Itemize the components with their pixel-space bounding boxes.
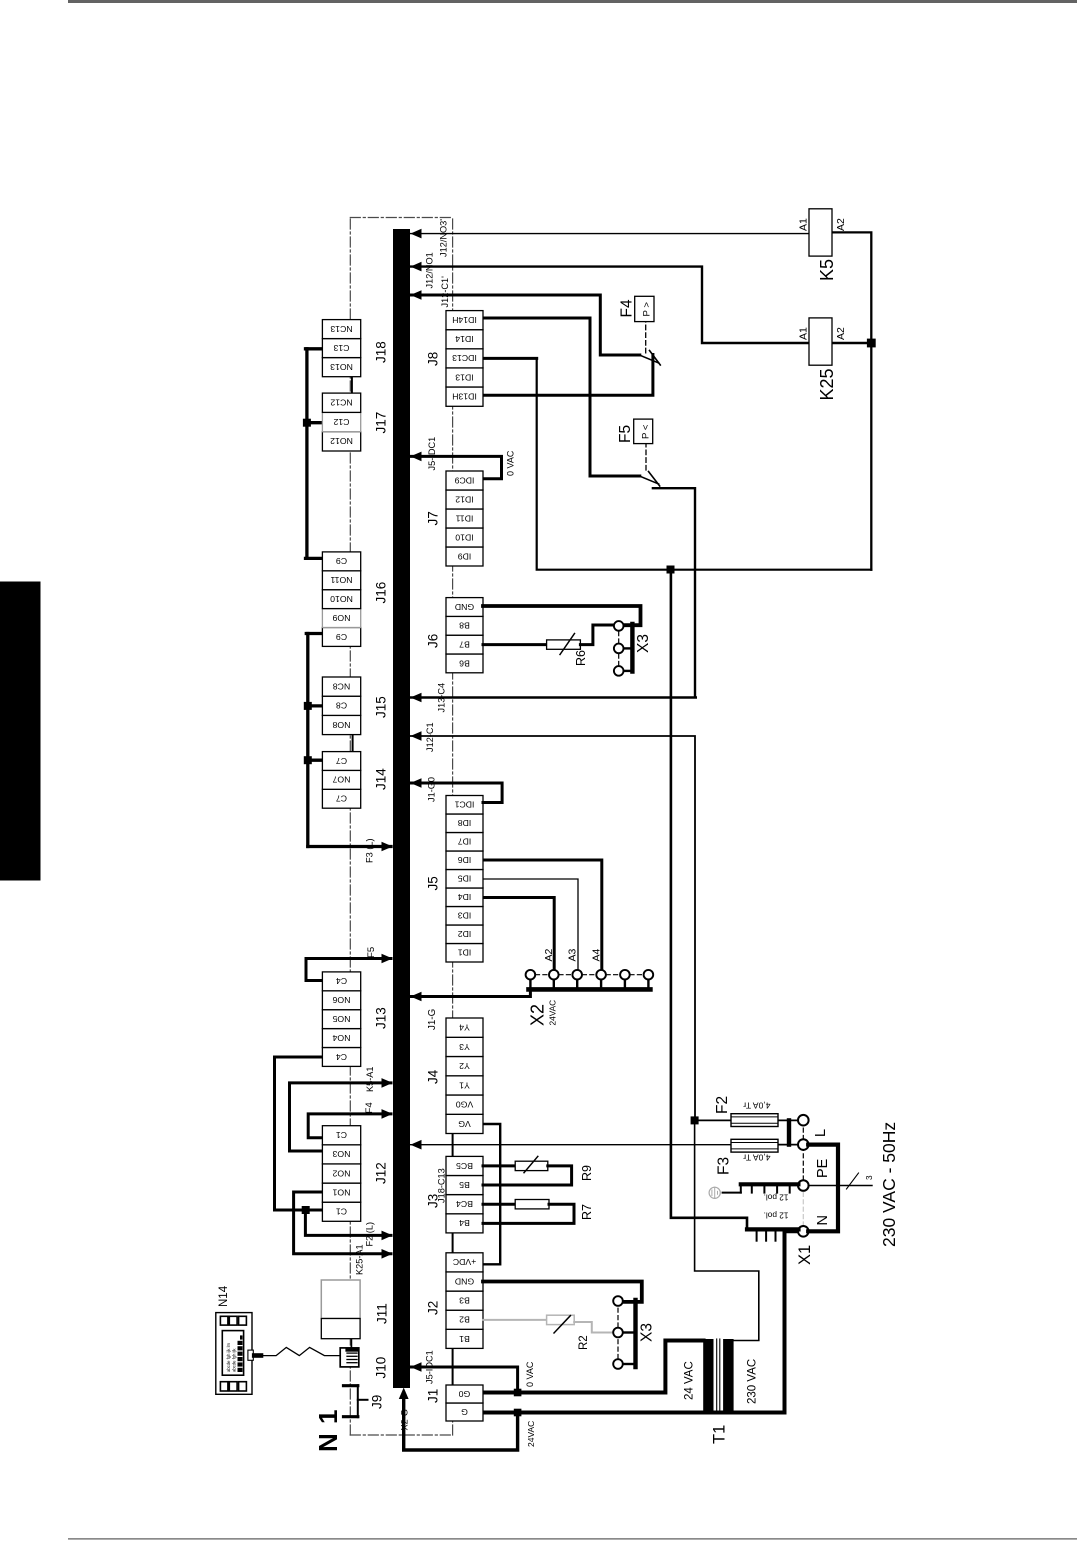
wire ID5 to X2-A3: [483, 879, 578, 970]
svg-text:J13: J13: [374, 1007, 389, 1029]
svg-text:J11: J11: [375, 1303, 390, 1324]
svg-text:X3: X3: [635, 634, 652, 653]
svg-text:F5: F5: [366, 947, 377, 958]
svg-text:A3: A3: [566, 948, 578, 961]
svg-text:VG: VG: [458, 1119, 471, 1129]
wire L terminal bridge: [787, 1120, 791, 1144]
svg-text:0 VAC: 0 VAC: [506, 450, 516, 476]
svg-text:N 1: N 1: [313, 1409, 343, 1452]
svg-text:J18: J18: [374, 341, 389, 363]
svg-text:J1-G: J1-G: [427, 1009, 438, 1030]
svg-text:F4: F4: [619, 299, 636, 317]
svg-text:J12-C1: J12-C1: [425, 722, 435, 752]
svg-text:F2: F2: [714, 1096, 731, 1114]
svg-text:J14: J14: [374, 768, 389, 790]
resistor R9: [483, 1156, 572, 1185]
wire C9/C8/C7 common bus to F3 (L): [306, 634, 391, 847]
wire J1-G0 to IDC1: [410, 783, 502, 803]
wire X1 mains bracket: [808, 1145, 838, 1232]
svg-text:NO2: NO2: [332, 1168, 350, 1178]
svg-text:N14: N14: [218, 1285, 230, 1307]
wire modem cable N14 to J10: [252, 1347, 340, 1357]
svg-text:GND: GND: [455, 602, 474, 612]
svg-text:230 VAC - 50Hz: 230 VAC - 50Hz: [879, 1122, 899, 1247]
arrows into bar top edge: [382, 842, 393, 1259]
fuse F2: [731, 1114, 778, 1127]
svg-text:G: G: [461, 1407, 468, 1417]
svg-text:NO6: NO6: [332, 995, 350, 1005]
terminal X1 circles L PE N: [798, 1115, 809, 1237]
svg-text:C4: C4: [336, 976, 347, 986]
wire VG to +VDC loop: [483, 1124, 500, 1264]
svg-text:J4: J4: [426, 1069, 441, 1084]
svg-text:C4: C4: [336, 1052, 347, 1062]
svg-text:Y1: Y1: [459, 1080, 470, 1090]
svg-text:A1: A1: [798, 218, 810, 231]
wire NO1 to K25-A1 signal: [294, 1192, 391, 1254]
wire J12/NO3' to K5-A1 coil: [410, 233, 809, 235]
controller bus bar N1: [393, 229, 410, 1388]
resistor R2 (grey option): [483, 1315, 613, 1333]
wire ID13H to F4 contact: [483, 355, 653, 396]
svg-text:NC12: NC12: [330, 398, 352, 408]
svg-text:ID14: ID14: [455, 334, 474, 344]
wire C1 top to F4 signal: [308, 1114, 391, 1138]
svg-text:NO13: NO13: [330, 362, 353, 372]
svg-text:230 VAC: 230 VAC: [747, 1359, 759, 1404]
svg-text:ID13H: ID13H: [452, 392, 477, 402]
svg-text:0 VAC: 0 VAC: [525, 1361, 535, 1387]
connector J13: [322, 972, 388, 1067]
svg-text:ID8: ID8: [458, 818, 472, 828]
wire ID14H to F5 contact: [483, 318, 640, 476]
page bottom rule: [68, 1538, 1077, 1540]
svg-text:VG0: VG0: [456, 1100, 474, 1110]
svg-text:R7: R7: [580, 1204, 594, 1220]
terminal strip X2: [526, 970, 654, 990]
svg-text:ID10: ID10: [455, 532, 474, 542]
svg-text:IDC1: IDC1: [454, 800, 474, 810]
wire J2-GND to X3: [483, 1282, 642, 1302]
junction F2 feed: [691, 1116, 699, 1124]
svg-text:J12/NO1: J12/NO1: [425, 252, 435, 288]
svg-text:abcde fgh ijk lm: abcde fgh ijk lm: [226, 1342, 231, 1372]
svg-text:J5-IDC1: J5-IDC1: [425, 1350, 435, 1384]
svg-text:NO11: NO11: [330, 575, 352, 585]
connector J10 (jack): [340, 1339, 359, 1367]
wire G0 0VAC rail: [483, 1341, 704, 1393]
svg-text:C7: C7: [336, 794, 347, 804]
svg-text:NO5: NO5: [332, 1014, 350, 1024]
svg-text:BC5: BC5: [456, 1161, 473, 1171]
svg-text:J7: J7: [426, 511, 441, 525]
svg-text:B3: B3: [459, 1296, 470, 1306]
module N14: [216, 1313, 253, 1395]
svg-text:+VDC: +VDC: [453, 1257, 476, 1267]
connector J11 (option grey + black): [321, 1280, 360, 1339]
svg-text:J18-C13: J18-C13: [437, 1168, 447, 1203]
svg-text:K25-A1: K25-A1: [355, 1244, 365, 1275]
svg-text:3: 3: [865, 1175, 874, 1180]
svg-text:C1: C1: [336, 1207, 347, 1217]
svg-text:J1: J1: [426, 1389, 441, 1403]
svg-text:ID6: ID6: [458, 855, 472, 865]
pressure switch F5 contact: [639, 444, 659, 486]
svg-text:P <: P <: [640, 424, 651, 439]
svg-text:J10: J10: [374, 1357, 389, 1379]
svg-text:C9: C9: [336, 556, 347, 566]
svg-text:A2: A2: [835, 327, 847, 340]
connector J1: [426, 1385, 484, 1421]
connector J8: [426, 311, 484, 407]
connector J14: [322, 752, 388, 809]
wire J13-C4 line: [410, 696, 696, 698]
svg-text:ID9: ID9: [458, 551, 472, 561]
svg-text:PE: PE: [815, 1158, 831, 1178]
svg-text:K5: K5: [817, 259, 837, 281]
svg-text:Y2: Y2: [459, 1061, 470, 1071]
svg-text:B1: B1: [459, 1334, 470, 1344]
svg-text:B4: B4: [459, 1218, 470, 1228]
svg-text:ID13: ID13: [455, 372, 474, 382]
svg-text:C1: C1: [336, 1130, 347, 1140]
junction C8: [304, 702, 312, 710]
svg-text:X2: X2: [528, 1004, 548, 1026]
wire C4b/C1b to F2 (L) signal: [275, 1057, 323, 1210]
svg-text:F4: F4: [364, 1102, 375, 1114]
wire J12-C1' to F4 contact: [410, 295, 640, 355]
svg-text:J12/NO3': J12/NO3': [439, 219, 449, 257]
svg-text:P >: P >: [642, 302, 653, 317]
svg-text:NO7: NO7: [332, 775, 350, 785]
svg-text:J12-C1': J12-C1': [440, 276, 450, 308]
svg-text:L: L: [813, 1129, 829, 1137]
wire C4 to F5 signal: [306, 959, 391, 981]
wire J12/NO1 to K25-A1 coil: [410, 267, 809, 343]
wire J6-GND to X3: [483, 606, 641, 625]
wire PE lead with 3-core slash: [808, 1173, 872, 1189]
svg-text:B6: B6: [459, 658, 470, 668]
wire ID4 to X2-A2: [483, 898, 554, 970]
fuse F3: [731, 1139, 778, 1152]
connector 12-pol N comb: [747, 1229, 799, 1240]
svg-text:C7: C7: [336, 756, 347, 766]
terminal block X3 (upper): [614, 621, 633, 676]
connector J18: [322, 320, 388, 377]
connector J6: [426, 598, 484, 673]
N1 controller boundary (dash-dot): [350, 218, 452, 1436]
wire J5-IDC1 feed at J1: [410, 1367, 518, 1389]
switch body P> F4: [635, 296, 654, 321]
svg-text:NO4: NO4: [332, 1033, 350, 1043]
svg-text:NO10: NO10: [330, 594, 353, 604]
wire F2 output: [778, 1119, 799, 1121]
connector J5: [426, 796, 484, 963]
wire coil return to X1-N: [671, 570, 747, 1230]
wire A2 rail K5/K25: [832, 232, 871, 569]
svg-text:ID3: ID3: [458, 911, 472, 921]
connector J15: [322, 677, 388, 735]
pressure switch F4 contact: [639, 322, 660, 365]
svg-text:F2 (L): F2 (L): [365, 1222, 375, 1247]
svg-text:X3: X3: [639, 1323, 656, 1342]
svg-text:24VAC: 24VAC: [548, 1000, 558, 1026]
junction K25-A2: [867, 339, 876, 348]
wire F5 output to J13-C4: [653, 488, 695, 697]
wire K25-A2 stub: [832, 342, 871, 344]
svg-text:R9: R9: [580, 1165, 594, 1181]
svg-text:A2: A2: [835, 218, 847, 231]
svg-text:ID4: ID4: [458, 892, 472, 902]
svg-text:T1: T1: [711, 1425, 729, 1444]
page top rule: [68, 0, 1077, 3]
thumb tab black bar: [0, 582, 41, 881]
svg-text:K5-A1: K5-A1: [365, 1066, 375, 1092]
transformer T1: [703, 1339, 733, 1412]
wire ID6 to X2-A4: [483, 860, 602, 970]
resistor R7: [483, 1200, 574, 1224]
svg-text:J12: J12: [374, 1162, 389, 1184]
connector J12: [322, 1126, 388, 1222]
svg-text:4,0A Tr: 4,0A Tr: [743, 1152, 770, 1162]
junction coil return: [667, 566, 675, 574]
svg-text:NC13: NC13: [330, 324, 352, 334]
wire link NO8-C7: [352, 735, 354, 752]
svg-text:J5-IDC1: J5-IDC1: [427, 437, 437, 471]
svg-text:A2: A2: [543, 948, 555, 961]
svg-text:NO9: NO9: [332, 613, 350, 623]
svg-text:J8: J8: [426, 352, 441, 366]
svg-text:Y4: Y4: [459, 1023, 470, 1033]
wire F3 output: [778, 1144, 799, 1146]
arrow X2-G: [399, 1388, 409, 1400]
svg-text:J15: J15: [374, 696, 389, 718]
svg-text:C9: C9: [336, 632, 347, 642]
svg-text:N: N: [815, 1215, 831, 1225]
svg-text:J6: J6: [426, 634, 441, 648]
svg-text:NO8: NO8: [332, 720, 350, 730]
svg-text:B2: B2: [459, 1315, 470, 1325]
svg-text:ID11: ID11: [455, 513, 473, 523]
svg-text:J9: J9: [370, 1395, 385, 1409]
svg-text:R2: R2: [578, 1335, 590, 1350]
junction C1 bottom: [302, 1206, 310, 1214]
svg-text:F3 (L): F3 (L): [365, 838, 375, 863]
svg-text:NO12: NO12: [330, 436, 353, 446]
svg-text:ID2: ID2: [458, 929, 472, 939]
svg-text:GND: GND: [455, 1276, 474, 1286]
svg-text:ID14H: ID14H: [452, 315, 477, 325]
wire X2-G from bar end: [404, 1399, 518, 1450]
svg-text:12 pol.: 12 pol.: [764, 1193, 789, 1203]
svg-text:abcde fgh ijk: abcde fgh ijk: [232, 1348, 237, 1372]
svg-text:J1-G0: J1-G0: [427, 777, 437, 802]
svg-text:A4: A4: [590, 948, 602, 961]
svg-text:BC4: BC4: [456, 1199, 473, 1209]
wire IDC13 to coil return net: [483, 357, 537, 360]
connector J17: [322, 393, 388, 451]
svg-text:K25: K25: [817, 368, 837, 400]
connector J3: [426, 1156, 484, 1233]
wire J18-C13 line to F3: [410, 1144, 731, 1146]
svg-text:ID5: ID5: [458, 874, 472, 884]
junction C7: [304, 756, 312, 764]
wire C13/C12/C9 common bus (top right): [306, 349, 323, 559]
terminal block X3 (lower): [613, 1296, 635, 1369]
svg-text:NO3: NO3: [332, 1149, 350, 1159]
svg-text:IDC13: IDC13: [452, 353, 477, 363]
svg-text:J13-C4: J13-C4: [437, 683, 447, 713]
svg-text:G0: G0: [459, 1389, 471, 1399]
svg-text:24VAC: 24VAC: [526, 1421, 536, 1447]
relay coil K5: [809, 209, 832, 256]
connector J9 (jumper): [344, 1385, 368, 1417]
svg-text:A1: A1: [798, 327, 810, 340]
arrows into bar bottom edge: [410, 229, 421, 1372]
svg-text:F5: F5: [617, 425, 634, 443]
svg-text:B8: B8: [459, 621, 470, 631]
junction G0 rail: [514, 1389, 522, 1397]
svg-text:Y3: Y3: [459, 1042, 470, 1052]
svg-text:NC8: NC8: [333, 682, 351, 692]
svg-text:4,0A Tr: 4,0A Tr: [743, 1101, 770, 1111]
svg-text:24 VAC: 24 VAC: [684, 1361, 696, 1400]
wire IDC9 0VAC loop: [410, 456, 502, 478]
svg-text:R6: R6: [574, 650, 588, 666]
svg-text:X2-G: X2-G: [400, 1409, 410, 1430]
svg-text:C13: C13: [333, 343, 349, 353]
connector J4: [426, 1018, 484, 1134]
wire F2 (L) drop to bar: [305, 1210, 391, 1235]
svg-text:J5: J5: [426, 876, 441, 890]
svg-text:IDC9: IDC9: [454, 475, 474, 485]
svg-text:ID7: ID7: [458, 837, 472, 847]
wire transformer primary feed: [695, 1120, 759, 1340]
connector J2: [426, 1253, 484, 1349]
svg-text:NO1: NO1: [332, 1188, 350, 1198]
svg-text:C8: C8: [336, 701, 347, 711]
wire J12-C1 line to F2 junction: [410, 736, 731, 1120]
svg-text:X1: X1: [796, 1245, 814, 1265]
connector J7: [426, 471, 484, 566]
svg-text:F3: F3: [716, 1157, 733, 1175]
svg-text:B5: B5: [459, 1180, 470, 1190]
wire link NO13-NC12: [351, 377, 353, 393]
wire J1-G to X2 bar: [410, 989, 530, 996]
svg-text:ID12: ID12: [455, 494, 474, 504]
wire G 24VAC rail: [483, 1231, 799, 1412]
svg-text:C12: C12: [333, 417, 349, 427]
junction C12: [303, 419, 311, 427]
resistor R6: [483, 625, 613, 655]
svg-text:12 pol.: 12 pol.: [764, 1211, 789, 1221]
earth symbol: [709, 1187, 741, 1198]
svg-text:ID1: ID1: [458, 948, 472, 958]
svg-text:B7: B7: [459, 640, 470, 650]
svg-text:J16: J16: [374, 582, 389, 604]
svg-text:J2: J2: [426, 1301, 441, 1315]
svg-text:J17: J17: [374, 412, 389, 434]
connector J16: [322, 552, 388, 647]
wire NO3 to K5-A1 signal: [290, 1083, 392, 1151]
switch body P< F5: [634, 419, 653, 444]
junction G rail: [514, 1409, 522, 1417]
connector strip solid links on boundary: [452, 1134, 454, 1386]
relay coil K25: [809, 318, 832, 365]
connector 12-pol PE comb: [741, 1184, 799, 1192]
